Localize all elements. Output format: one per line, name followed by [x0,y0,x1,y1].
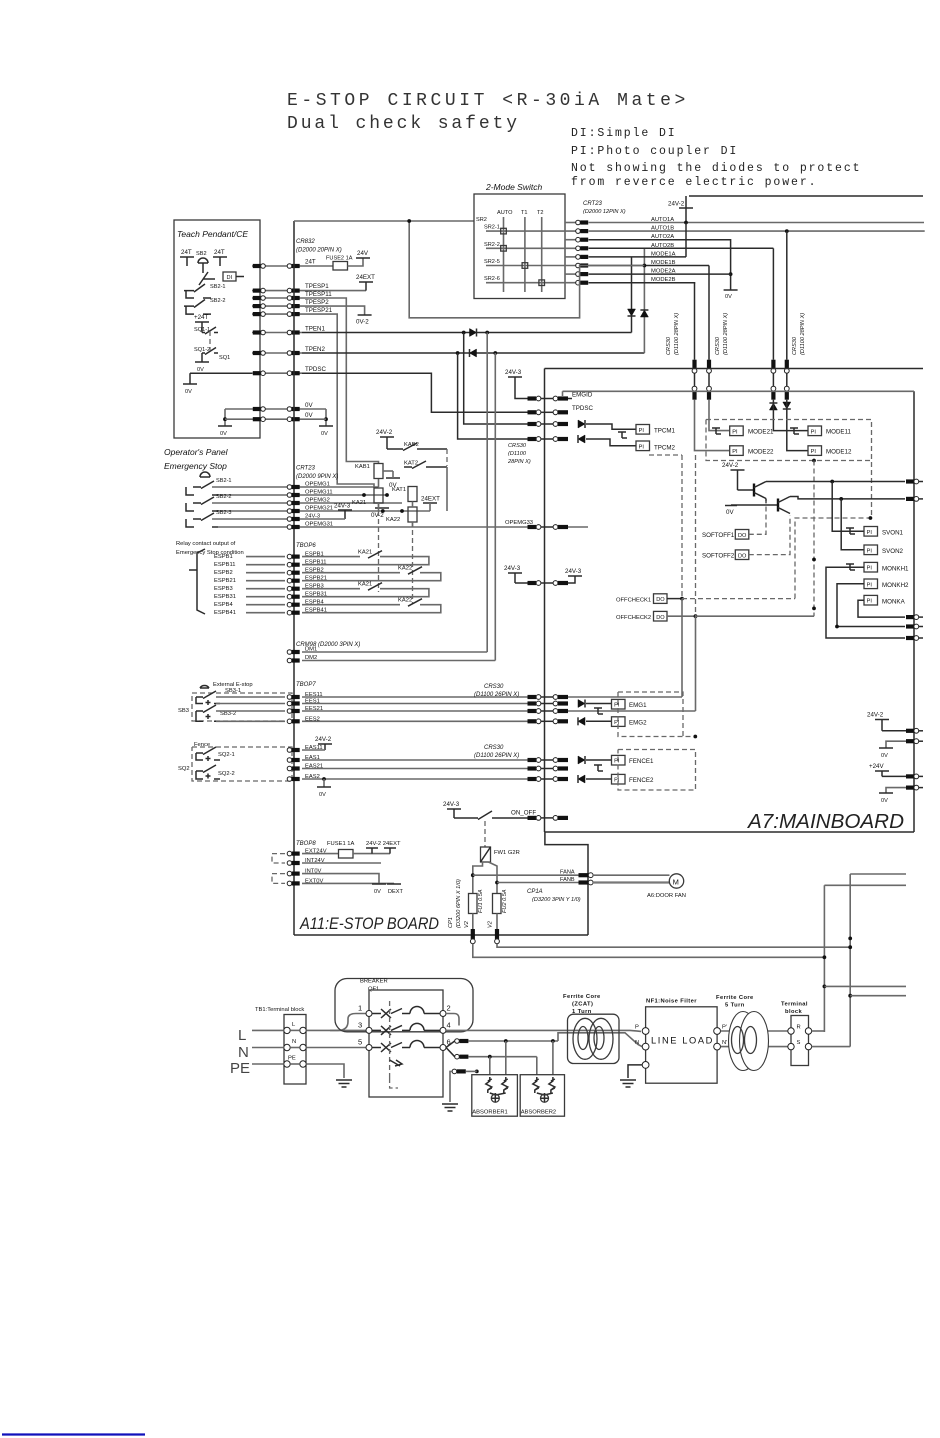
svg-text:0V: 0V [321,431,328,437]
svg-text:KA22: KA22 [386,517,400,523]
junction TPEN2 a [456,351,460,355]
wire KA21 loop y588.7 [302,588,360,590]
TBOP6 pin ESPB3 [287,586,300,591]
svg-text:(ZCAT): (ZCAT) [572,1002,593,1008]
wire INT24V [302,862,381,864]
contact SB3-2 [196,705,220,721]
TB1 circle left PE [284,1061,290,1067]
FENCE2 row gap wire [541,778,553,780]
wire +24T down [201,322,203,333]
mainboard right pin 24V-2 [906,728,923,733]
wire KAT2 down [446,467,448,511]
wire DI [236,276,244,278]
wire 0V stub [392,471,394,478]
svg-text:TPCM1: TPCM1 [654,428,676,435]
TB1 circle left N [284,1044,290,1050]
wire TP row y353 [252,352,302,354]
junction FANB [495,881,499,885]
CRT23 pin y274.1 [576,272,589,277]
svg-text:TBOP6: TBOP6 [296,543,316,549]
svg-text:24EXT: 24EXT [421,496,440,503]
breaker wire 1 out [424,1013,440,1015]
svg-text:1: 1 [358,1004,362,1013]
contact KA21 y588.7 [368,583,382,591]
junction spine a [812,558,816,562]
svg-text:PI: PI [614,720,620,726]
TBOP7 pin EES2 [287,719,300,724]
wire OPEMG21 [302,510,430,512]
mainboard top edge [545,368,924,370]
wire FANB [497,882,579,884]
wire OFFCHECK1 [667,598,682,600]
wire KAB1-0V [383,470,393,472]
svg-text:SR2-1: SR2-1 [484,225,500,231]
svg-text:CP1A: CP1A [527,889,543,895]
svg-text:CR832: CR832 [296,239,315,245]
OPEMG3 row CRS30 pin left [528,525,541,530]
wire TPDSC to mainboard [302,373,536,412]
svg-text:SOFTOFF2: SOFTOFF2 [702,553,735,560]
svg-text:EMG2: EMG2 [629,720,647,727]
svg-text:block: block [785,1009,803,1015]
fuse FU2 [493,894,502,914]
wire Pp to R [721,1030,788,1032]
mainboard right pin Q1 out pin [906,479,923,484]
svg-text:DO: DO [656,615,665,621]
link SQ1 [209,331,211,350]
svg-text:FU1 0.5A: FU1 0.5A [478,889,484,913]
wire KA21 loop y556.6 [302,556,360,558]
junction OFFCHECK2 [694,614,698,618]
TBOP6 pin ESPB31 [287,594,300,599]
contact SB2-1 [184,284,211,298]
junction 0V right [324,417,328,421]
svg-text:PI: PI [867,599,873,605]
wire TPESP1 [302,290,366,292]
CP1A pin FANA [579,873,594,878]
contact SB3-1 [196,691,220,705]
wire FANA [473,874,579,876]
wire EAS11 [302,749,325,751]
CRS30 wire x773.4 gap [772,373,774,386]
svg-text:5 Turn: 5 Turn [725,1003,745,1009]
svg-text:0V: 0V [374,889,381,895]
svg-text:CRS30: CRS30 [666,336,672,355]
svg-text:KAB1: KAB1 [355,464,370,470]
wire SB2-2 upper [212,502,302,504]
svg-text:5: 5 [358,1038,362,1047]
svg-text:FU2 0.5A: FU2 0.5A [502,889,508,913]
mainboard bottom edge [545,831,915,833]
relay coil KA22 [408,507,417,522]
svg-text:SR2-5: SR2-5 [484,259,500,265]
svg-text:V2: V2 [464,920,470,928]
svg-text:24T: 24T [305,259,316,266]
svg-text:0V: 0V [319,792,326,798]
svg-text:OFFCHECK1: OFFCHECK1 [616,598,651,604]
2-mode stub y274.1 [565,273,577,275]
photocoupler EMG2 [612,717,626,727]
svg-text:SQ1: SQ1 [219,355,230,361]
wire 0V row1 r [302,408,326,410]
FENCE1 row CRS30 pin left [528,758,541,763]
TBOP6 pin ESPB2 [287,570,300,575]
CR832 connector pin y332.5 [287,330,300,335]
TBOP7 pin EAS11 [287,748,300,753]
diode EMG1 [578,700,585,708]
wire EES21 inside [568,710,696,712]
svg-text:A11:E-STOP BOARD: A11:E-STOP BOARD [299,915,439,933]
breaker wire 5 in [372,1047,381,1049]
wire abs2 left drop [536,1057,538,1075]
contact SB2-2 op [186,497,218,511]
wire EMG1 [586,703,612,705]
contact SB2-2 [184,300,211,315]
abs2 earth electrode [537,1093,553,1102]
svg-text:PE: PE [230,1060,250,1077]
contact SB2 actuator [199,269,215,285]
svg-text:TPDSC: TPDSC [572,405,594,412]
breaker trip arrow [390,1060,402,1066]
breaker wire 5 mid [402,1047,410,1049]
FENCE1 row mainboard pin [553,758,568,763]
gate MODE11 [790,428,799,434]
breaker pole circle 1 [366,1011,372,1017]
mainboard right pin MONKH1 pin [906,636,923,641]
breaker pole circle 2 [440,1011,446,1017]
EES21 mb gap wire [541,710,553,712]
svg-text:SB2-1: SB2-1 [216,478,232,484]
teach pendant connector pin y353 [253,351,266,356]
dashed box EMG [618,692,695,737]
svg-text:PI: PI [867,548,873,554]
diode TPCM1 [578,420,585,428]
RS circle S right [805,1043,811,1049]
transistor Q2 [778,497,790,514]
photocoupler MONKH1 [864,562,878,572]
CP1 power pin c [452,1069,466,1074]
TPCM2 row CRS30 pin left [528,437,541,442]
dashed SOFTOFF1 [749,501,766,534]
CRT23 9pin pin OPEMG1 [287,485,300,490]
wire power out d [850,995,906,997]
svg-text:BREAKER: BREAKER [360,979,388,985]
wire TPEN2 [302,352,644,354]
svg-text:24V-2: 24V-2 [668,201,685,208]
wire N out [306,1047,366,1049]
svg-text:SQ1-2: SQ1-2 [194,347,210,353]
svg-text:SQ2-2: SQ2-2 [218,771,235,777]
contact KA21 y556.6 [368,551,382,559]
wire FU2 down [496,914,498,931]
svg-text:MONKA: MONKA [882,598,906,605]
link KAB2 KAT2 [446,449,448,466]
flag 24EXT relay [423,502,437,504]
svg-text:ESPB41: ESPB41 [214,610,236,616]
CRS30 wire x709 upper [708,266,710,360]
svg-text:MODE22: MODE22 [748,448,774,455]
svg-text:KA22: KA22 [398,566,412,572]
svg-text:DI: DI [227,275,233,281]
svg-text:TPDSC: TPDSC [305,366,327,373]
wire TPEN2 to CRS30 row4 [458,353,536,439]
junction TPEN1 a [462,331,466,335]
svg-text:PI: PI [614,759,620,765]
TBOP8 pin EXT24V [287,851,300,856]
relay FW1 [481,847,491,862]
gate SVON1 [846,528,855,534]
flag 24V-3 right [568,575,582,577]
arrester abs2 b [549,1077,555,1093]
gate MONKH1 [846,564,855,570]
breaker label box [335,979,473,1032]
svg-text:ABSORBER1: ABSORBER1 [472,1110,507,1116]
CRS30 wire x786.8 upper [786,231,788,360]
wire 0V row2 left [225,418,252,420]
terminal block TB1 [284,1015,306,1085]
svg-text:(D1100 28PIN X): (D1100 28PIN X) [800,313,806,355]
svg-text:CRT23: CRT23 [296,466,316,472]
breaker contact box [369,990,443,1097]
svg-text:24V-2: 24V-2 [376,429,393,436]
CRM98 pin DM2 [287,658,300,663]
CRS30 wire MODE21 feed [709,400,730,431]
CRT23 pin y231.1 [576,229,589,234]
contact SQ2-1 [196,747,220,761]
svg-text:SB2: SB2 [196,251,207,257]
teach pendant connector pin y266 [253,264,266,269]
TBOP7 pin EAS1 [287,758,300,763]
wire power vert V2 [849,874,851,1047]
breaker arc 1 [410,1007,424,1014]
CRT23 pin y265.5 [576,263,589,268]
svg-text:MODE11: MODE11 [826,429,852,436]
wire FW1 left leg [473,862,483,894]
earth PE [336,1080,352,1087]
svg-text:ON_OFF: ON_OFF [511,810,536,817]
svg-text:KA21: KA21 [358,550,372,556]
earth absorber gnd [442,1104,458,1111]
pushbutton SB3 [200,685,209,688]
wire EES11 inside [568,696,682,698]
wire SQ1-2 down [201,353,203,362]
svg-text:KA21: KA21 [352,500,366,506]
ferrite 5turn torus [729,1012,769,1071]
CRS30 connector pin top x786.8 [784,360,789,373]
CRT23 pin y222.5 [576,220,589,225]
svg-text:NF1:Noise Filter: NF1:Noise Filter [646,999,697,1005]
svg-text:(D1100 28PIN X): (D1100 28PIN X) [723,313,729,355]
junction V2 a [848,945,852,949]
wire SVON2 feed [841,499,864,550]
diode x773 [769,403,777,410]
wire N to filter [558,1033,642,1047]
svg-text:0V-2: 0V-2 [371,512,384,519]
svg-text:SR2: SR2 [476,217,487,223]
TBOP8 pin INT24V [287,861,300,866]
svg-text:0V: 0V [881,798,888,804]
junction dash svon [869,516,873,520]
wire OPEMG1 coil [378,479,380,488]
CRS30 connector pin bottom x786.8 [784,386,789,399]
svg-text:24T: 24T [181,249,192,256]
diode TPEN1 [470,329,477,337]
wire SR2 return [409,221,644,318]
ground TPDSC [183,383,197,385]
junction OPEMG21 a [381,509,385,513]
svg-text:TPESP11: TPESP11 [305,291,332,298]
wire 24T to SR2 [294,220,474,222]
wire abs1 right drop [505,1041,507,1075]
mainboard right edge [913,391,915,832]
svg-text:ESPB3: ESPB3 [214,586,233,592]
svg-text:CRS30: CRS30 [484,745,504,751]
24V-3 row mb CRS30 pin left [528,581,541,586]
TBOP7 pin EES11 [287,695,300,700]
svg-text:ESPB1: ESPB1 [214,554,233,560]
svg-text:TPEN2: TPEN2 [305,346,326,353]
CRS30 wire x694.5 gap [694,373,696,386]
fuse FU1 [469,894,478,914]
link KA22 contacts [412,522,414,604]
flag 24V-3 left [508,573,522,583]
svg-text:ESPB31: ESPB31 [214,594,236,600]
EMG2 row CRS30 pin left [528,719,541,724]
breaker pole circle 3 [366,1027,372,1033]
breaker arc 3 [410,1023,424,1030]
footer line [2,1433,145,1435]
svg-text:24V: 24V [357,250,369,257]
svg-text:(D2000 12PIN X): (D2000 12PIN X) [583,209,626,215]
teach pendant connector pin y419.2 [253,417,266,422]
wire KA22 loop return y604.7 [302,605,441,613]
FENCE2 row mainboard pin [553,777,568,782]
svg-text:Relay contact output of: Relay contact output of [176,541,236,547]
breaker wire 3 out [424,1029,440,1031]
breaker trip link [389,1001,391,1078]
wire ESPB2 ext [246,572,285,574]
wire PE out [306,1064,344,1078]
wire gnd pin c [450,1071,452,1102]
ground 0V out b [879,792,893,794]
noise filter box [646,1007,718,1083]
wire EES11 ext [216,696,285,698]
EMGID row CRS30 pin left [528,396,541,401]
svg-text:PI: PI [732,429,738,435]
2-mode stub y222.5 [565,222,577,224]
column T1 [524,217,526,292]
wire N mid [290,1047,300,1049]
CR832 connector pin y373.2 [287,371,300,376]
wire MODE2B [589,282,696,284]
wire absorber feed a [468,1040,558,1042]
wire breaker 6 dn [446,1048,455,1057]
EMG1 row gap wire [541,703,553,705]
wire tr2 base h [731,504,778,506]
junction AUTO2A-MODE2A [729,272,733,276]
junction abs1 r [504,1039,508,1043]
TPCM1 row mainboard pin [553,422,568,427]
wire SB2-1 upper [212,486,302,488]
svg-text:DEXT: DEXT [388,889,404,895]
svg-text:0V: 0V [197,367,204,373]
svg-text:SQ2-1: SQ2-1 [218,752,235,758]
CRM98 pin DM1 [287,650,300,655]
wire SB2-3 lower [218,526,302,528]
wire L mid [290,1029,300,1031]
wire L in [252,1029,284,1031]
contact KA22 y572.7 [408,567,422,575]
junction OPEMG21 b [400,509,404,513]
diode x786 [783,402,791,409]
wire EES1 ext [216,703,285,705]
flag 24V-3 onoff [447,809,461,815]
wire OPEMG11 [302,494,387,496]
svg-text:N: N [238,1044,249,1061]
CRT23 pin y239.7 [576,237,589,242]
wire TP row y419.2 [252,418,302,420]
CRT23 9pin pin OPEMG21 [287,509,300,514]
TPDSC row mb CRS30 pin left [528,410,541,415]
wire OFFCHECK2 [667,615,696,617]
photocoupler FENCE1 [612,755,626,765]
ground EAS2 [317,786,331,788]
wire power top a [850,873,906,875]
breaker X contact 1 [381,1009,402,1019]
wire breaker 2 out [446,1014,459,1026]
wire FENCE1 [586,759,612,761]
24V-3 row mb mainboard pin [553,581,568,586]
EMGID row mainboard pin [553,396,568,401]
svg-text:CRS30: CRS30 [715,336,721,355]
svg-text:DO: DO [656,597,665,603]
flag 0V-2 tp [358,314,372,316]
wire TPCM1 [586,424,636,429]
svg-text:SVON2: SVON2 [882,548,904,555]
TB1 circle right N [300,1044,306,1050]
svg-text:SB3-2: SB3-2 [220,711,236,717]
wire OPEMG31 [302,526,536,528]
CRT23 9pin pin OPEMG11 [287,493,300,498]
diode EMG2 [578,717,585,725]
OPEMG3 row mainboard pin [553,525,568,530]
dashed SOFTOFF2 [749,516,790,555]
contact ON_OFF [454,811,533,820]
CR832 connector pin y306.1 [287,304,300,309]
junction 24V-2 AUTO1A [684,221,688,225]
mainboard right pin 0V a [906,739,923,744]
wire ESPB4 ext [246,604,285,606]
teach pendant connector pin y409 [253,407,266,412]
svg-text:TPESP2: TPESP2 [305,299,329,306]
svg-text:EMGID: EMGID [572,392,593,399]
contact SB2-3 op [186,513,218,527]
wire offcheck1 riser [681,599,683,697]
CRS30 wire MODE12 feed [787,400,808,451]
wire 0V drop left [224,409,226,426]
CR832 connector pin y266 [287,264,300,269]
column AUTO [503,217,505,292]
svg-text:A7:MAINBOARD: A7:MAINBOARD [747,811,904,833]
CRS30 wire x709 gap [708,373,710,386]
contact KAB2 [387,443,447,451]
dashed vertical left [681,455,683,599]
wire TPCM2 [586,439,636,446]
2-mode stub y256.9 [565,256,577,258]
svg-text:EMG1: EMG1 [629,702,647,709]
ON_OFF row gap wire [541,817,553,819]
flag 24V [356,257,370,259]
